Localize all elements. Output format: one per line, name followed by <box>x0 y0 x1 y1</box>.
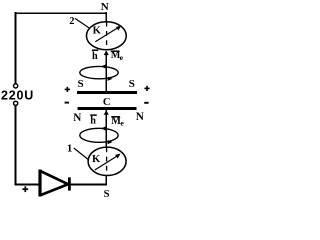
compass K1 axis dashed <box>106 147 108 175</box>
compass K1 body <box>88 147 126 175</box>
svg-text:1: 1 <box>67 143 73 155</box>
svg-text:e: e <box>120 53 124 62</box>
svg-text:2: 2 <box>69 16 74 27</box>
svg-text:S: S <box>129 78 135 90</box>
wire bottom right <box>71 183 108 185</box>
arrow up at bottom plate <box>104 110 109 115</box>
svg-text:h: h <box>92 51 98 62</box>
svg-text:e: e <box>120 118 124 127</box>
svg-text:220U: 220U <box>1 89 34 103</box>
wire right upper-mid (compass K2 to top plate) <box>105 55 107 92</box>
capacitor C top plate <box>77 91 137 94</box>
terminal circle top <box>14 84 18 88</box>
compass K2 body <box>86 22 126 50</box>
pointer line for label 2 <box>75 18 89 28</box>
svg-text:S: S <box>78 78 84 90</box>
svg-text:K: K <box>93 26 102 37</box>
svg-text:N: N <box>101 1 109 13</box>
wire right mid (bottom plate to compass K1) <box>105 110 107 147</box>
compass K1 needle <box>95 156 117 170</box>
label minus left plate <box>65 102 69 104</box>
svg-text:N: N <box>73 112 81 124</box>
svg-text:S: S <box>104 189 110 200</box>
wire top horizontal <box>15 12 107 14</box>
pointer line for label 1 <box>74 148 89 160</box>
wire left lower <box>15 106 17 186</box>
label + (source polarity) <box>22 186 28 192</box>
label + right plate <box>144 86 149 91</box>
svg-text:N: N <box>136 111 144 123</box>
wire right lower riser <box>105 176 107 186</box>
diode D <box>40 170 69 197</box>
arrow up below compass K2 <box>104 50 109 55</box>
capacitor C bottom plate <box>78 107 137 110</box>
terminal circle bottom <box>14 101 18 105</box>
loop upper arrow left (top arc) <box>101 64 106 68</box>
loop ellipse upper (magnetic field loop) <box>80 66 118 78</box>
svg-text:K: K <box>92 154 101 165</box>
loop ellipse lower (magnetic field loop) <box>80 128 118 142</box>
wire right top riser <box>105 12 107 22</box>
label minus right plate <box>144 102 148 104</box>
svg-text:h: h <box>90 116 96 127</box>
compass K2 axis dashed <box>106 22 108 50</box>
label + left plate <box>65 87 70 92</box>
loop lower arrow right (bottom arc) <box>108 140 113 144</box>
wire bottom left <box>15 183 39 185</box>
compass K2 needle <box>95 28 117 42</box>
loop lower arrow left (top arc) <box>101 126 106 130</box>
wire left upper <box>15 12 17 83</box>
svg-text:C: C <box>103 97 111 108</box>
loop upper arrow right (bottom arc) <box>108 77 113 81</box>
